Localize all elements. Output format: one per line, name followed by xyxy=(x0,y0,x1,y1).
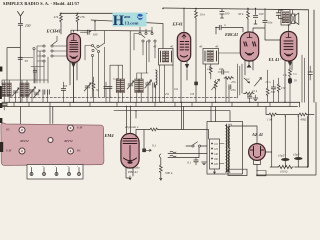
tone parts xyxy=(255,78,287,103)
right bus vertical xyxy=(313,10,315,102)
svg-text:3-30: 3-30 xyxy=(113,78,119,81)
tube EL41 xyxy=(280,25,297,102)
svg-text:47k: 47k xyxy=(54,15,59,19)
svg-text:100 Ω: 100 Ω xyxy=(280,170,288,174)
transformer bottom yoke xyxy=(228,169,247,175)
drop from bus to panel xyxy=(21,107,53,125)
chassis panel xyxy=(1,123,104,165)
inner right rail xyxy=(308,10,310,167)
osc coil risers xyxy=(105,31,148,97)
svg-text:25 n: 25 n xyxy=(265,80,271,84)
drops from bus to lower area xyxy=(182,102,216,129)
svg-text:s: s xyxy=(55,165,56,168)
resistor R 27k xyxy=(76,13,85,31)
svg-text:10n: 10n xyxy=(268,21,273,25)
heater bus xyxy=(2,106,298,108)
cap at left bus xyxy=(2,104,6,110)
svg-text:25n: 25n xyxy=(165,93,170,96)
EBC41 cathode arrow xyxy=(247,64,252,68)
svg-text:6 M: 6 M xyxy=(6,149,12,153)
IF transformer 2 xyxy=(199,45,219,65)
antenna down wire xyxy=(19,28,21,102)
coupling cap to EL41 xyxy=(253,9,281,41)
grid line y31 xyxy=(71,30,152,33)
al punto x wire xyxy=(125,125,209,152)
top B+ bus xyxy=(60,12,147,14)
svg-text:27k: 27k xyxy=(80,15,85,19)
svg-text:100: 100 xyxy=(93,33,98,37)
svg-text:10 k: 10 k xyxy=(252,89,258,93)
dashed gang line xyxy=(10,96,238,98)
vertical drops left xyxy=(2,68,156,102)
svg-text:500: 500 xyxy=(63,85,68,88)
wire with cap y27.5 xyxy=(216,23,243,34)
voltage selector panel xyxy=(210,139,220,174)
svg-text:0.1: 0.1 xyxy=(152,144,157,148)
svg-text:H: H xyxy=(113,13,125,29)
svg-text:10n: 10n xyxy=(174,88,179,91)
mains input xyxy=(168,142,207,158)
cap at output primary xyxy=(276,10,283,19)
svg-text:150: 150 xyxy=(281,86,286,90)
watermark box xyxy=(113,13,147,30)
output transformer xyxy=(281,10,290,26)
transformer shield box xyxy=(207,122,243,175)
svg-text:al punto x: al punto x xyxy=(125,125,139,129)
svg-text:50: 50 xyxy=(25,59,29,63)
svg-text:10μF: 10μF xyxy=(278,154,285,158)
tube EM4 xyxy=(121,107,139,180)
IF transformer 1 xyxy=(153,45,174,103)
right side rails & parts xyxy=(302,55,312,102)
svg-text:ΦΕΡΜ: ΦΕΡΜ xyxy=(20,139,29,143)
tube ECH41 xyxy=(67,30,81,102)
svg-text:13.com: 13.com xyxy=(125,21,139,26)
switch bank 2b xyxy=(134,27,156,62)
svg-text:1M: 1M xyxy=(207,67,212,71)
T2 to grid link xyxy=(219,52,241,54)
electrolytic cap 2 xyxy=(293,116,302,167)
svg-text:100: 100 xyxy=(259,12,264,16)
front-end coils xyxy=(2,83,49,98)
resistor 100 ohm xyxy=(270,116,307,174)
ECH41 cathode arrow xyxy=(71,63,75,68)
cap+gnd det xyxy=(248,95,258,102)
right bias resistors xyxy=(266,102,314,121)
svg-text:6 M: 6 M xyxy=(77,126,83,130)
svg-text:vol: vol xyxy=(246,78,250,81)
left edge scan marks xyxy=(0,67,3,153)
svg-text:100: 100 xyxy=(25,24,31,28)
osc feedback coil xyxy=(156,70,158,88)
heater ticks xyxy=(7,102,290,106)
svg-text:EBC41: EBC41 xyxy=(127,170,138,174)
500k resistor xyxy=(159,154,173,180)
band switch contacts xyxy=(20,36,66,83)
svg-text:ans: ans xyxy=(124,14,131,19)
terminal strip xyxy=(27,165,83,180)
resistor 30k top xyxy=(238,9,249,32)
antenna series capacitor 100 xyxy=(18,22,22,28)
main ground bus xyxy=(2,101,300,103)
svg-text:500 k: 500 k xyxy=(165,171,173,175)
svg-text:5 n: 5 n xyxy=(293,73,297,76)
svg-text:30 k: 30 k xyxy=(238,12,244,16)
svg-text:4MΩ: 4MΩ xyxy=(300,118,307,122)
svg-text:ECH41: ECH41 xyxy=(46,29,61,34)
svg-text:40: 40 xyxy=(170,45,174,49)
tube EBC41 xyxy=(240,32,258,75)
power transformer xyxy=(220,124,230,172)
antenna left branch xyxy=(7,48,20,83)
wire to IF1 xyxy=(91,20,163,49)
svg-text:EL 41: EL 41 xyxy=(268,57,280,62)
heater loop xyxy=(257,171,267,176)
resistor R 47k xyxy=(54,13,63,34)
svg-text:EF41: EF41 xyxy=(172,22,183,27)
tuning gang 2 xyxy=(116,79,154,93)
B+ riser xyxy=(271,116,273,167)
svg-text:10 k: 10 k xyxy=(200,13,206,17)
tube EF41 xyxy=(177,9,190,103)
svg-text:130: 130 xyxy=(147,81,152,84)
svg-text:0.1: 0.1 xyxy=(187,161,191,165)
EM4 heater line xyxy=(114,111,230,122)
svg-text:40: 40 xyxy=(199,45,203,49)
svg-text:SIMPLEX RADIO S. A. - Modd. 44: SIMPLEX RADIO S. A. - Modd. 441/57 xyxy=(3,1,79,6)
grid stopper block xyxy=(194,82,198,86)
svg-text:ΦΕΡΜ: ΦΕΡΜ xyxy=(64,139,73,143)
svg-text:EM4: EM4 xyxy=(104,133,115,138)
svg-text:10μF: 10μF xyxy=(293,153,300,157)
paper background xyxy=(0,0,320,187)
EL41 cathode parts xyxy=(283,62,297,103)
cap 100 grid xyxy=(81,30,98,37)
tube AZ41 xyxy=(249,144,266,161)
resistor right of EBC xyxy=(266,70,275,102)
detector chain xyxy=(206,64,237,102)
cap 100 top xyxy=(253,9,263,25)
svg-text:40: 40 xyxy=(215,45,219,49)
speaker xyxy=(291,10,299,25)
resistor 10k det xyxy=(245,89,258,95)
svg-text:.5M: .5M xyxy=(270,90,275,94)
svg-text:EBC41: EBC41 xyxy=(224,32,238,37)
svg-text:100: 100 xyxy=(219,68,224,71)
svg-text:AZ 41: AZ 41 xyxy=(251,132,263,137)
svg-text:47n: 47n xyxy=(231,80,236,84)
svg-text:100: 100 xyxy=(190,93,195,96)
cap 50 on antenna line xyxy=(18,58,28,64)
switch bank 2a xyxy=(85,43,105,97)
resistor 10k screen xyxy=(195,9,206,103)
electrolytic cap 1 xyxy=(278,116,289,167)
wires transformer to AZ41 xyxy=(231,102,316,175)
top right bus xyxy=(163,8,309,10)
svg-text:100: 100 xyxy=(225,12,230,16)
svg-text:50: 50 xyxy=(294,79,298,83)
EBC41 underside wiring xyxy=(238,64,250,98)
svg-text:25n: 25n xyxy=(231,88,236,92)
cap 100 screen bypass xyxy=(220,9,230,18)
antenna xyxy=(18,12,24,23)
misc tiny labels xyxy=(29,58,297,96)
osc section caps xyxy=(61,81,112,91)
svg-text:3-30: 3-30 xyxy=(29,89,35,92)
mains cap 0.1 xyxy=(187,158,206,166)
